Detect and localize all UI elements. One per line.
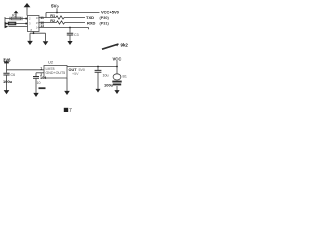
svg-text:R2: R2 <box>50 19 55 23</box>
svg-text:(P30): (P30) <box>100 16 110 20</box>
svg-text:9k2: 9k2 <box>121 42 129 47</box>
svg-text:16: 16 <box>36 16 40 20</box>
svg-text:5Vo: 5Vo <box>51 4 59 9</box>
svg-text:100u: 100u <box>104 83 114 88</box>
svg-text:GND+OUT5: GND+OUT5 <box>46 71 66 75</box>
svg-text:(P31): (P31) <box>100 21 110 25</box>
svg-text:2: 2 <box>40 73 42 77</box>
svg-text:13: 13 <box>40 24 44 28</box>
svg-text:+5V: +5V <box>72 72 79 76</box>
svg-text:B1: B1 <box>123 75 127 79</box>
svg-text:14: 14 <box>36 26 40 30</box>
svg-text:U2: U2 <box>48 60 54 65</box>
svg-text:C6: C6 <box>11 73 16 77</box>
svg-text:7: 7 <box>69 108 72 114</box>
svg-text:R3: R3 <box>12 14 17 18</box>
svg-text:C3: C3 <box>74 33 79 37</box>
svg-text:15: 15 <box>36 21 40 25</box>
svg-text:10u: 10u <box>103 73 109 77</box>
svg-text:VCC: VCC <box>113 56 122 61</box>
svg-text:10: 10 <box>37 81 41 85</box>
svg-text:RXD: RXD <box>87 20 96 25</box>
svg-text:100u: 100u <box>3 79 13 84</box>
svg-text:5V0: 5V0 <box>79 68 85 72</box>
svg-text:1: 1 <box>40 67 42 71</box>
svg-text:VCC+5V0: VCC+5V0 <box>101 10 120 15</box>
svg-text:R1: R1 <box>50 14 55 18</box>
svg-text:11: 11 <box>40 16 44 20</box>
svg-text:3V6: 3V6 <box>3 57 11 62</box>
